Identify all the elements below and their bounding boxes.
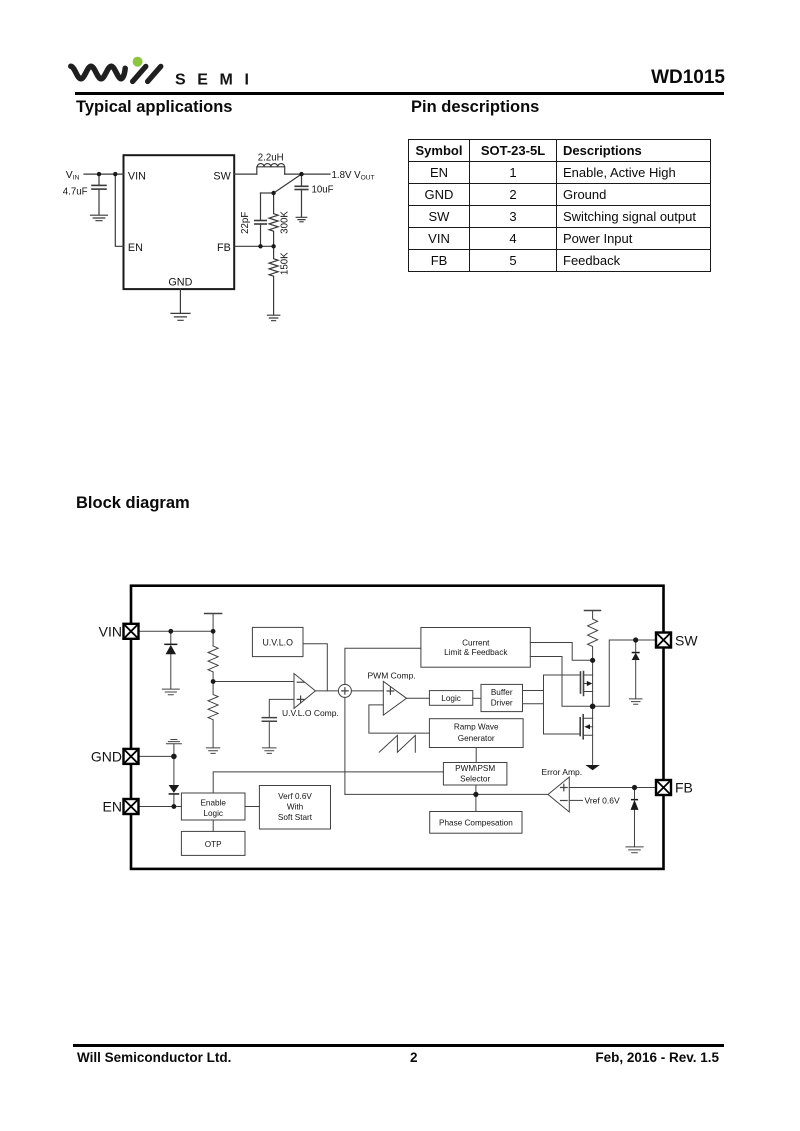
- node VIN-D1: [168, 629, 173, 634]
- svg-text:10uF: 10uF: [312, 184, 334, 195]
- wire gate bracket: [544, 675, 581, 734]
- wire enable to OTP: [212, 820, 214, 831]
- transistor Q2 gate/channel: [579, 718, 581, 736]
- node divider top: [271, 191, 275, 195]
- wire FB internal: [569, 787, 656, 789]
- ground flag above GND node: [166, 740, 181, 757]
- svg-text:VIN: VIN: [99, 623, 122, 639]
- op-amp error amplifier: [548, 777, 569, 812]
- ground for C1: [91, 215, 108, 221]
- svg-text:22pF: 22pF: [240, 212, 251, 234]
- node B switch mid: [590, 704, 596, 710]
- diode D2 bar: [169, 793, 180, 795]
- IC U1: [124, 155, 235, 289]
- Buffer Driver block: [481, 684, 523, 711]
- diode D4 bar: [631, 799, 638, 801]
- wire enable logic to selector: [213, 772, 443, 793]
- logo Will SEMI: [60, 48, 260, 92]
- PWM PSM Selector block: [443, 763, 507, 786]
- svg-text:U.V.L.O Comp.: U.V.L.O Comp.: [282, 708, 339, 718]
- capacitor C3 22pF: [260, 193, 262, 220]
- node R1-R2: [211, 679, 216, 684]
- wire enable to vref block: [245, 806, 259, 808]
- VIN internal rail bar: [205, 613, 222, 615]
- svg-text:VIN: VIN: [66, 170, 80, 182]
- wire summer to PWM comp: [351, 690, 383, 692]
- wire rail to R1: [212, 614, 214, 647]
- svg-text:EN: EN: [128, 242, 143, 254]
- wire error amp output: [345, 793, 548, 795]
- diode D1 body: [166, 645, 176, 654]
- part number WD1015: [651, 67, 725, 89]
- Logic block: [429, 691, 472, 706]
- op-amp U.V.L.O comparator: [294, 674, 315, 709]
- svg-text:4.7uF: 4.7uF: [63, 187, 88, 198]
- transistor Q1 body arrow: [587, 681, 593, 686]
- wire current limit out2: [530, 657, 609, 707]
- node A drain top: [590, 658, 595, 663]
- svg-text:Soft Start: Soft Start: [278, 813, 313, 822]
- svg-text:Selector: Selector: [460, 774, 490, 783]
- wire GND internal: [139, 755, 174, 757]
- wire buffer outputs: [523, 691, 544, 704]
- svg-text:EN: EN: [103, 799, 122, 815]
- svg-text:SEMI: SEMI: [175, 71, 260, 88]
- node FB-D4: [632, 785, 637, 790]
- svg-text:Enable: Enable: [200, 798, 226, 807]
- wire SW internal: [609, 640, 656, 706]
- svg-text:SW: SW: [675, 633, 698, 649]
- svg-text:PWM Comp.: PWM Comp.: [368, 671, 416, 681]
- wire EN tie to VIN: [115, 174, 123, 246]
- svg-text:FB: FB: [217, 242, 231, 254]
- wire Vref to error amp: [569, 799, 582, 801]
- diode D3 leads: [635, 640, 637, 699]
- svg-text:150K: 150K: [280, 252, 291, 275]
- capacitor C1 4.7uF: [98, 174, 100, 185]
- svg-text:Buffer: Buffer: [491, 688, 513, 697]
- svg-text:Generator: Generator: [458, 734, 495, 743]
- chip outline: [131, 586, 664, 869]
- ground under R2: [206, 748, 219, 754]
- svg-text:Ramp Wave: Ramp Wave: [454, 722, 499, 731]
- ground under D4: [626, 847, 643, 853]
- wire UVLO to comparator output: [303, 644, 327, 691]
- wire VIN rail: [139, 630, 214, 632]
- Current Limit block: [421, 628, 530, 668]
- Phase Compensation block: [430, 812, 522, 834]
- pin FB: [656, 780, 671, 795]
- diode D1 bar: [164, 644, 177, 646]
- wire diagonal output to divider: [274, 174, 302, 193]
- diode D1 lead: [170, 631, 172, 689]
- diode D2 leads: [173, 756, 175, 806]
- capacitor C2 10uF: [301, 174, 303, 186]
- node Vin-C1: [97, 172, 101, 176]
- wire PWM comp minus to ramp: [369, 705, 430, 733]
- pin GND: [124, 749, 139, 764]
- svg-text:Error Amp.: Error Amp.: [542, 767, 583, 777]
- svg-text:Phase Compesation: Phase Compesation: [439, 818, 513, 827]
- logo wave W: [71, 66, 125, 79]
- svg-text:Limit & Feedback: Limit & Feedback: [444, 648, 508, 657]
- svg-text:Logic: Logic: [203, 809, 223, 818]
- inductor L1 2.2uH: [257, 167, 285, 174]
- logo green dot: [133, 57, 143, 67]
- svg-text:OTP: OTP: [205, 840, 222, 849]
- section heading: Typical applications: [76, 98, 232, 117]
- ground under D3: [629, 699, 642, 704]
- pin SW: [656, 633, 671, 648]
- node output: [299, 172, 303, 176]
- resistor R2 150K: [269, 246, 278, 315]
- wire summer to current limit: [345, 648, 421, 684]
- diode D3 bar: [632, 652, 640, 654]
- svg-text:U.V.L.O: U.V.L.O: [262, 638, 293, 648]
- transistor Q2 body arrow: [584, 724, 590, 729]
- ground under C4: [263, 748, 276, 754]
- svg-text:VIN: VIN: [128, 170, 146, 182]
- svg-text:300K: 300K: [280, 211, 291, 234]
- pin VIN: [124, 624, 139, 639]
- resistor R1: [208, 646, 218, 682]
- VIN rail bar right: [585, 610, 601, 612]
- node GND-D2: [171, 754, 177, 760]
- ground for GND pin: [171, 313, 190, 320]
- svg-text:PWM\PSM: PWM\PSM: [455, 764, 495, 773]
- svg-text:GND: GND: [91, 748, 122, 764]
- section heading: Pin descriptions: [411, 98, 539, 117]
- summing junction: [338, 684, 351, 697]
- logo slash i: [133, 66, 146, 81]
- OTP block: [181, 831, 245, 855]
- node Vin-EN: [113, 172, 117, 176]
- svg-text:Driver: Driver: [491, 699, 513, 708]
- svg-text:FB: FB: [675, 780, 693, 796]
- header rule: [75, 92, 724, 95]
- svg-text:2.2uH: 2.2uH: [258, 153, 284, 164]
- wire logic to buffer: [473, 697, 481, 699]
- resistor R1 300K: [269, 193, 278, 246]
- wire PWM comp to logic: [407, 697, 430, 699]
- resistor R2: [208, 682, 218, 748]
- svg-text:SW: SW: [213, 170, 231, 182]
- svg-text:With: With: [287, 802, 304, 811]
- node FB-C3: [258, 244, 262, 248]
- U.V.L.O block: [252, 627, 303, 656]
- transistor Q1 gate/channel: [580, 672, 582, 693]
- svg-text:Logic: Logic: [441, 694, 461, 703]
- ground for C2: [296, 217, 307, 222]
- resistor R3: [588, 611, 598, 765]
- wire ramp to selector: [475, 748, 477, 763]
- logo slash l: [148, 66, 161, 81]
- svg-text:Verf 0.6V: Verf 0.6V: [278, 792, 312, 801]
- wire current limit out1: [530, 643, 592, 661]
- diode D4 body: [631, 800, 639, 810]
- node selector-error line: [473, 792, 478, 797]
- wire comparator to summer: [315, 690, 338, 692]
- op-amp PWM comparator: [383, 681, 406, 715]
- wire EN internal: [139, 806, 182, 808]
- Ramp Wave Generator block: [429, 719, 523, 748]
- wire FB: [234, 245, 273, 247]
- section heading: Block diagram: [76, 494, 190, 513]
- diode D4 leads: [634, 788, 636, 847]
- wire UVLO comp plus input: [269, 699, 294, 717]
- wire selector to error line and phase comp: [475, 785, 477, 812]
- wire divider top: [261, 192, 274, 194]
- node FB-R: [271, 244, 275, 248]
- node VIN-R1: [211, 629, 216, 634]
- sawtooth glyph: [379, 735, 415, 752]
- svg-text:GND: GND: [168, 276, 192, 288]
- wire summer to error amp output: [344, 697, 346, 794]
- footer rule: [73, 1044, 724, 1047]
- svg-text:1.8V VOUT: 1.8V VOUT: [332, 170, 375, 182]
- wire divider to UVLO comp minus: [213, 681, 294, 683]
- ground under D1: [162, 689, 179, 695]
- Vref Soft Start block: [259, 786, 330, 830]
- wire SW to inductor: [234, 173, 257, 175]
- capacitor C4: [262, 718, 276, 722]
- ground for R2: [267, 315, 279, 321]
- Enable Logic block: [181, 793, 245, 820]
- svg-text:Current: Current: [462, 639, 490, 648]
- node SW-D3: [633, 637, 638, 642]
- diode D2 body: [169, 785, 180, 793]
- pin EN: [124, 799, 139, 814]
- ground arrow under Q2: [585, 765, 599, 770]
- svg-text:Vref 0.6V: Vref 0.6V: [585, 796, 620, 806]
- wire GND pin: [179, 289, 181, 313]
- wire VIN input: [84, 173, 124, 175]
- wire inductor to output: [285, 173, 330, 175]
- diode D3 body: [632, 653, 640, 660]
- node EN-D2: [172, 804, 177, 809]
